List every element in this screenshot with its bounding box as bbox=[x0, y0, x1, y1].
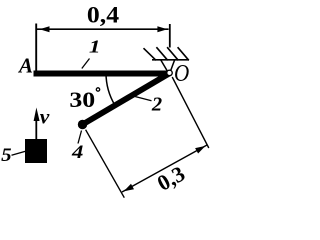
svg-text:v: v bbox=[40, 105, 50, 129]
svg-text:A: A bbox=[17, 54, 33, 78]
svg-text:5: 5 bbox=[1, 145, 11, 166]
svg-text:30: 30 bbox=[69, 87, 95, 112]
svg-text:4: 4 bbox=[71, 141, 83, 163]
svg-text:0,4: 0,4 bbox=[87, 3, 119, 28]
svg-text:1: 1 bbox=[89, 36, 101, 57]
svg-text:2: 2 bbox=[151, 94, 162, 116]
svg-text:O: O bbox=[174, 59, 189, 86]
